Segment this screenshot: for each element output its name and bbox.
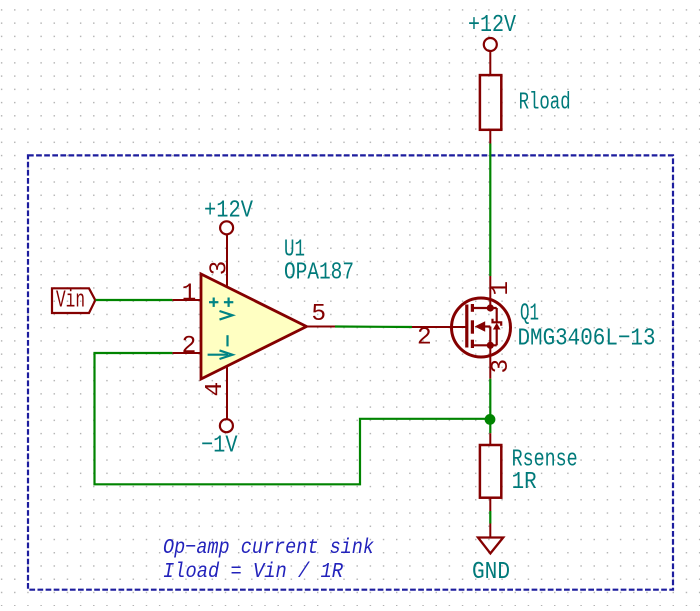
Q1 internal drain junction dot (487, 304, 494, 311)
Q1 channel segment top (471, 304, 474, 312)
wire Q1 source to sense node (489, 379, 491, 433)
resistor Rsense (480, 433, 501, 511)
dashed graphic frame box (28, 155, 673, 589)
Q1 gate pin (pin 2) (412, 326, 467, 328)
power symbol +12V (op-amp V+) (204, 197, 253, 234)
U1 output pin 5 (307, 326, 336, 328)
svg-text:GND: GND (472, 559, 510, 586)
svg-text:−1V: −1V (201, 433, 238, 460)
Q1 body diode anode/cathode link upper (496, 308, 498, 322)
wire Rsense to ground (489, 511, 491, 524)
wire feedback net (sense node to U1 pin 2) (95, 353, 491, 484)
svg-text:1R: 1R (512, 469, 537, 496)
op-amp U1 body triangle (201, 274, 307, 379)
U1 V- pin 4 (226, 366, 228, 420)
transistor Q1 body circle (452, 298, 511, 357)
power symbol +12V (Rload branch) (468, 12, 516, 75)
svg-text:Vin: Vin (56, 288, 85, 315)
Q1 source bottom bar (472, 344, 496, 346)
svg-text:5: 5 (311, 301, 326, 328)
Q1 drain top bar (472, 307, 496, 309)
Q1 source pin (pin 3) (489, 345, 491, 379)
svg-text:3: 3 (207, 261, 234, 276)
svg-text:4: 4 (202, 382, 229, 397)
Q1 body diode link lower (496, 330, 498, 346)
U1 V+ pin 3 (226, 234, 228, 287)
U1 internal plus marks and chevrons (208, 298, 234, 360)
Q1 drain pin (pin 1) (489, 276, 491, 308)
svg-text:Op−amp current sink: Op−amp current sink (163, 536, 374, 560)
Q1 body diode triangle (493, 323, 501, 330)
junction node (sense node) (485, 414, 496, 425)
Q1 body diode cathode bar with hooks (493, 319, 502, 326)
svg-text:1: 1 (182, 281, 197, 308)
svg-text:+12V: +12V (468, 12, 516, 39)
Q1 channel segment bottom (471, 340, 474, 348)
svg-text:Q1: Q1 (520, 301, 539, 328)
U1 non-inverting input pin 1 (172, 299, 201, 301)
ground pin stub (489, 524, 491, 538)
svg-text:3: 3 (488, 359, 515, 374)
svg-text:+12V: +12V (204, 197, 253, 224)
U1 inverting input pin 2 (172, 352, 201, 354)
Q1 internal source junction dot (487, 342, 494, 349)
svg-text:1: 1 (488, 281, 515, 296)
svg-text:OPA187: OPA187 (284, 259, 354, 286)
svg-text:Iload = Vin / 1R: Iload = Vin / 1R (163, 560, 343, 584)
svg-text:2: 2 (182, 333, 197, 360)
svg-text:DMG3406L−13: DMG3406L−13 (518, 326, 656, 353)
power symbol -1V (op-amp V-) (201, 419, 238, 460)
wire Rload bottom to Q1 drain (489, 144, 491, 277)
global label Vin (52, 288, 95, 315)
wire Vin to U1 pin 1 (96, 299, 173, 301)
Q1 substrate arrow (475, 321, 491, 345)
Q1 gate bar (465, 305, 468, 348)
resistor Rload (480, 75, 501, 143)
Q1 channel segment middle (471, 320, 474, 333)
ground symbol (478, 538, 503, 554)
svg-text:2: 2 (417, 325, 432, 352)
wire U1 output to Q1 gate (335, 325, 412, 328)
svg-text:Rload: Rload (519, 90, 571, 117)
